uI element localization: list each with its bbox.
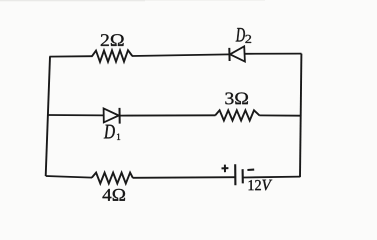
resistor 3-ohm zigzag [215,110,259,120]
battery positive plate (long bar) [234,164,236,185]
label 2-ohm value [101,34,124,46]
wire: middle segment from D1 to 3-ohm resistor [120,114,216,116]
diode D2 (cathode bar) [228,48,230,61]
wire: left edge [46,57,50,177]
wire: top left segment to 2-ohm resistor [49,55,92,57]
label 4-ohm value [103,189,126,201]
diode D1 (triangle, pointing right) [104,108,119,122]
wire: top right segment from D2 to corner [245,53,302,55]
label battery minus sign [247,169,254,171]
wire: bottom left segment to 4-ohm resistor [46,176,92,178]
wire: bottom right segment from battery to corner [243,176,300,179]
battery negative plate (short bar) [242,169,244,183]
wire: bottom middle segment from 4-ohm to battery [133,176,235,179]
resistor 4-ohm zigzag [92,173,133,184]
label battery plus sign [222,165,229,173]
wire: middle right segment from 3-ohm to right edge [259,114,301,116]
label D2 [236,28,251,43]
wire: right edge [300,54,301,177]
wire: middle left segment to diode D1 [47,114,104,116]
label 12V value [249,180,273,191]
wire: top middle segment to diode D2 [132,54,229,56]
diode D2 (triangle, pointing left) [230,46,245,61]
resistor 2-ohm zigzag [92,50,132,62]
diode D1 (cathode bar) [119,108,121,124]
label D1 [104,125,120,140]
label 3-ohm value [225,93,248,105]
